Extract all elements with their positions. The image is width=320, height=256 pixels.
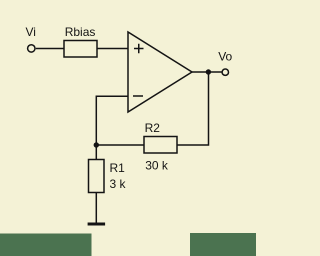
resistor Rbias <box>64 41 97 58</box>
wire R2 to output node <box>177 72 209 145</box>
wire op-amp output to Vo <box>192 71 222 73</box>
wire Rbias to op-amp + input <box>97 48 128 50</box>
wire R1 to ground <box>95 193 97 223</box>
op-amp - pin label <box>133 95 143 97</box>
resistor R2 <box>144 137 177 154</box>
wire inverting input <box>96 96 128 145</box>
svg-text:Vo: Vo <box>218 49 232 63</box>
green footer bar left <box>0 234 92 256</box>
wire node to R2 <box>96 144 144 146</box>
wire Vi to Rbias <box>36 48 64 50</box>
svg-text:30 k: 30 k <box>145 158 169 172</box>
resistor R1 <box>89 160 105 193</box>
ground <box>88 223 106 226</box>
terminal Vo <box>222 69 228 75</box>
svg-text:3 k: 3 k <box>110 177 127 191</box>
svg-text:R2: R2 <box>145 121 161 135</box>
svg-text:Vi: Vi <box>26 25 36 39</box>
op-amp + pin label <box>134 44 144 53</box>
green footer bar right <box>190 233 256 256</box>
op-amp U1 <box>128 32 192 112</box>
junction node at output <box>206 69 211 74</box>
svg-text:Rbias: Rbias <box>65 25 96 39</box>
wire node to R1 <box>95 145 97 160</box>
junction node at inverting feedback <box>94 142 99 147</box>
terminal Vi <box>28 45 35 52</box>
svg-text:R1: R1 <box>110 161 126 175</box>
